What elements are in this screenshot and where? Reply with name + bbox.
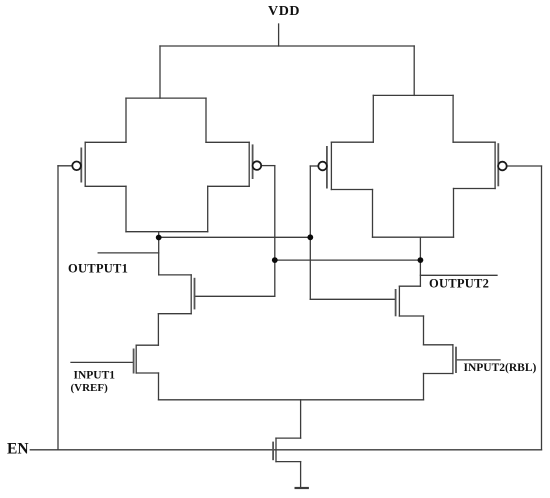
svg-text:INPUT2(RBL): INPUT2(RBL) xyxy=(464,362,537,374)
svg-text:INPUT1: INPUT1 xyxy=(74,370,116,382)
svg-text:(VREF): (VREF) xyxy=(71,382,109,394)
svg-text:VDD: VDD xyxy=(268,4,300,19)
svg-text:EN: EN xyxy=(7,441,29,458)
svg-text:OUTPUT1: OUTPUT1 xyxy=(68,262,128,276)
svg-text:OUTPUT2: OUTPUT2 xyxy=(429,277,489,291)
